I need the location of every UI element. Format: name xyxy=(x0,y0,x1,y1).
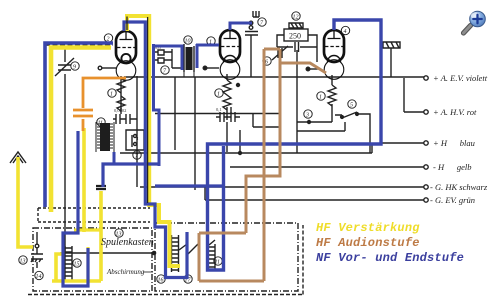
wire yellow second drop xyxy=(82,128,86,232)
wire mid right verticals xyxy=(297,50,345,153)
svg-text:- G. EV. grün: - G. EV. grün xyxy=(430,195,475,205)
wire brown link top xyxy=(264,48,280,51)
tube V1 xyxy=(116,31,137,80)
coil L15 xyxy=(65,246,72,282)
wire -H gelb row xyxy=(230,166,424,168)
wire yellow in box2 xyxy=(169,228,180,266)
wire brown main drop xyxy=(199,49,264,281)
wire blue drops to box2 xyxy=(103,164,222,187)
wire yellow right drop to box xyxy=(52,191,101,281)
terminal in box1 xyxy=(35,244,39,248)
svg-text:11: 11 xyxy=(215,260,221,266)
label 7c xyxy=(258,18,266,26)
label 9 xyxy=(71,62,79,70)
wire brown top right arm xyxy=(281,63,326,73)
wire brown riser xyxy=(246,49,280,233)
antenna arrow xyxy=(10,152,26,163)
label 11 xyxy=(97,118,105,126)
wire blue left inner drop xyxy=(63,131,88,286)
svg-text:- G. HK schwarz: - G. HK schwarz xyxy=(430,182,488,192)
wire mid verticals xyxy=(155,77,280,190)
wire left vertical from tuning cap down to coil box xyxy=(64,46,66,253)
wire top-left horizontal under blue xyxy=(45,44,113,46)
label 8 xyxy=(214,257,222,265)
coil L16 xyxy=(172,235,179,272)
label 6 xyxy=(263,57,271,65)
capacitor block C-b below V1 xyxy=(113,114,137,124)
anode supply rail + A.EV xyxy=(124,76,424,78)
label i xyxy=(108,89,116,97)
variable capacitor C6 xyxy=(272,46,288,60)
svg-text:NF Vor- und Endstufe: NF Vor- und Endstufe xyxy=(316,251,464,265)
svg-text:1: 1 xyxy=(110,92,113,98)
node tube V3 grid terminal xyxy=(306,67,310,71)
tube V2 xyxy=(220,30,241,79)
label 15 xyxy=(73,259,81,267)
wire +H blau row xyxy=(120,143,424,153)
capacitor C above V2 xyxy=(245,32,258,78)
label 3 xyxy=(304,110,312,118)
label 2 xyxy=(104,34,112,42)
svg-text:14: 14 xyxy=(36,273,42,280)
label 7 xyxy=(161,66,169,74)
wire blue V3 anode long run xyxy=(208,20,382,270)
grid-leak mark top of yellow right drop xyxy=(96,186,106,189)
label 13 xyxy=(19,256,27,264)
wire V2 top cap xyxy=(229,23,231,30)
node tube V2 grid terminal xyxy=(203,66,207,70)
capacitor block below V2 xyxy=(216,112,240,122)
svg-text:1: 1 xyxy=(217,92,220,98)
antenna mark III above V2 xyxy=(253,11,259,17)
label 1b xyxy=(215,89,223,97)
resistor R1 below V3 xyxy=(328,85,336,122)
label 7a xyxy=(133,151,141,159)
svg-text:15: 15 xyxy=(74,262,80,268)
resistor R-i2 below V1 xyxy=(117,96,125,114)
terminal labels right xyxy=(430,73,488,205)
wire yellow anode staircase xyxy=(127,16,180,266)
dash-dot box Spulenkasten right xyxy=(155,223,298,291)
arrows on coils xyxy=(179,240,215,256)
wire V3 top cap xyxy=(333,20,335,30)
wire -G.EV gruen row xyxy=(205,187,424,200)
svg-text:3: 3 xyxy=(305,113,309,119)
wire +A.HV rot row xyxy=(404,78,424,112)
node coupling dots above V2 xyxy=(249,21,253,25)
label 11b xyxy=(184,275,192,283)
svg-text:12: 12 xyxy=(293,15,299,21)
switch S5 xyxy=(335,112,370,153)
label 10 xyxy=(184,36,192,44)
svg-text:250: 250 xyxy=(289,32,301,41)
label 1 xyxy=(207,37,215,45)
terminal circles right xyxy=(424,76,428,202)
svg-text:9: 9 xyxy=(73,65,76,71)
svg-text:1: 1 xyxy=(319,95,322,101)
wire blue V1 anode run xyxy=(124,22,187,278)
label 12 xyxy=(292,12,300,20)
label 13a xyxy=(115,229,123,237)
grid condenser box 250 U12 xyxy=(284,29,308,41)
wire yellow inside box1 xyxy=(74,230,101,279)
svg-text:+ H blau: + H blau xyxy=(433,138,475,148)
svg-text:Abschirmung: Abschirmung xyxy=(106,268,145,276)
wire brown box left xyxy=(199,233,246,281)
label 1c xyxy=(317,92,325,100)
wire blue T1 secondary to V2 xyxy=(196,44,219,68)
label 4 xyxy=(341,26,349,34)
resistor R-i1 below V1 xyxy=(117,78,125,93)
wire blue V2 top cap link xyxy=(230,23,252,30)
wire -G.HK schwarz row xyxy=(140,186,424,188)
resistor above box xyxy=(289,23,303,28)
capacitor network C7 left of T1 xyxy=(155,49,182,68)
dashed tuning sub-box xyxy=(38,208,150,222)
label 14 xyxy=(35,271,43,279)
resistor R below V2 xyxy=(223,74,231,120)
capacitor orange C xyxy=(73,110,93,116)
svg-text:13: 13 xyxy=(20,259,26,265)
tube V3 xyxy=(324,30,345,79)
node tube V1 grid terminal xyxy=(98,66,102,70)
wire orange cathode branch xyxy=(83,78,126,131)
wire V1 anode lead over highlight xyxy=(127,17,148,204)
svg-text:HF Verstärkung: HF Verstärkung xyxy=(316,221,420,235)
svg-text:Spulenkasten: Spulenkasten xyxy=(101,237,154,248)
svg-text:+ A. H.V. rot: + A. H.V. rot xyxy=(433,107,477,117)
transformer T1 xyxy=(184,46,194,72)
label 5 xyxy=(348,100,356,108)
svg-text:HF Audionstufe: HF Audionstufe xyxy=(316,236,420,250)
resistor top right xyxy=(383,42,400,48)
wire cathode V1 xyxy=(120,76,122,112)
label 16 xyxy=(157,275,165,283)
svg-text:5: 5 xyxy=(350,103,353,109)
wire V3 cathode down xyxy=(331,75,333,85)
dash-dot box Spulenkasten left xyxy=(33,228,152,291)
switch box S7 xyxy=(126,130,144,150)
leads of 250 box xyxy=(277,35,317,62)
outer dashed shield bottom xyxy=(28,225,303,295)
svg-text:- H gelb: - H gelb xyxy=(433,162,471,172)
svg-text:10: 10 xyxy=(185,39,191,45)
capacitor C13 xyxy=(31,248,43,268)
wire blue top-left frame xyxy=(45,43,113,207)
svg-text:4: 4 xyxy=(344,28,347,35)
svg-text:16: 16 xyxy=(158,278,164,284)
variable capacitor C9 xyxy=(55,58,74,76)
wire V1 anode vertical mid column xyxy=(136,76,138,187)
wire yellow left loop xyxy=(51,48,111,213)
capacitor C parallel to 250 xyxy=(295,42,299,52)
wire long in box xyxy=(60,252,154,254)
wire blue T1 frame xyxy=(114,44,182,166)
wire T1 primary top xyxy=(183,44,185,46)
coil L11 xyxy=(208,244,215,270)
svg-text:+ A. E.V. violett: + A. E.V. violett xyxy=(433,73,488,83)
wire yellow antenna stem xyxy=(18,157,33,247)
